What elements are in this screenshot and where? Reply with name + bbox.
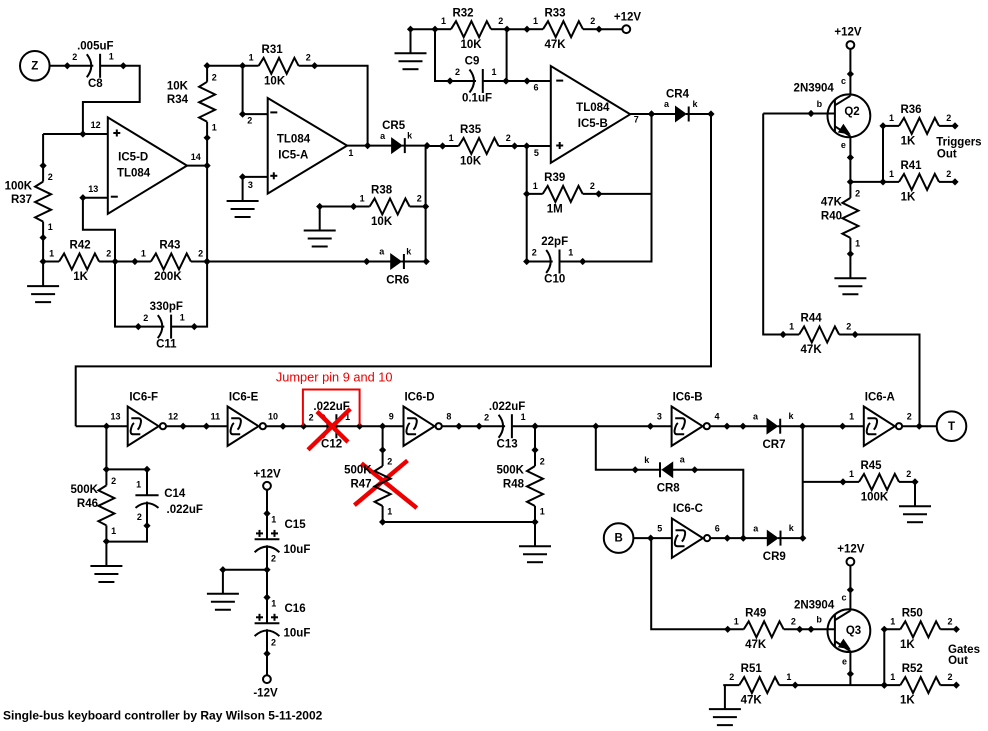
svg-text:2: 2 <box>48 172 53 182</box>
svg-text:b: b <box>817 99 823 109</box>
node C13 junction <box>531 423 538 430</box>
svg-text:1: 1 <box>180 313 185 323</box>
svg-text:+12V: +12V <box>614 12 642 24</box>
wire <box>850 181 883 183</box>
svg-text:2: 2 <box>946 113 951 123</box>
ground stub <box>407 26 414 54</box>
resistor R50 <box>881 607 960 651</box>
svg-text:.005uF: .005uF <box>77 40 113 52</box>
inverter IC6-E <box>203 391 287 446</box>
resistor R46 <box>71 466 117 545</box>
svg-text:B: B <box>614 533 622 545</box>
svg-text:IC5-A: IC5-A <box>278 149 308 161</box>
ground <box>207 594 239 610</box>
svg-text:10uF: 10uF <box>284 544 311 556</box>
svg-text:2: 2 <box>247 116 252 126</box>
svg-text:1: 1 <box>387 507 392 517</box>
svg-text:C15: C15 <box>285 519 307 531</box>
svg-text:1: 1 <box>360 194 365 204</box>
wire <box>596 426 635 470</box>
svg-text:330pF: 330pF <box>150 301 183 313</box>
svg-text:1: 1 <box>521 412 526 422</box>
svg-text:IC6-D: IC6-D <box>404 391 434 403</box>
node R50 junction <box>881 682 888 689</box>
svg-text:+12V: +12V <box>254 469 282 481</box>
wire <box>242 177 244 201</box>
svg-text:1: 1 <box>348 148 353 158</box>
node emitter junction <box>847 178 854 185</box>
svg-text:2: 2 <box>947 672 952 682</box>
svg-text:3: 3 <box>657 412 662 422</box>
power +12V <box>837 544 865 566</box>
svg-text:2: 2 <box>137 512 142 522</box>
annotation X over C12 <box>308 409 350 450</box>
wire <box>206 138 208 262</box>
svg-text:2: 2 <box>212 72 217 82</box>
wire <box>710 425 743 427</box>
svg-text:2: 2 <box>417 194 422 204</box>
ground <box>227 201 259 217</box>
svg-text:2: 2 <box>532 248 537 258</box>
node e <box>842 657 854 678</box>
svg-text:Out: Out <box>948 655 968 667</box>
power +12V <box>834 27 862 49</box>
svg-text:1: 1 <box>734 616 739 626</box>
wire <box>803 425 864 427</box>
resistor R47 <box>344 446 392 525</box>
terminal Z <box>20 51 50 81</box>
resistor R33 <box>523 7 602 51</box>
node out7 <box>648 110 655 117</box>
svg-text:CR4: CR4 <box>666 88 690 100</box>
wire <box>106 526 147 542</box>
annotation jumper text <box>276 370 393 385</box>
svg-text:2: 2 <box>271 637 276 647</box>
svg-text:1: 1 <box>789 322 794 332</box>
svg-text:2: 2 <box>791 616 796 626</box>
svg-text:R36: R36 <box>900 104 921 116</box>
label Gates Out <box>948 644 980 667</box>
wire <box>535 425 672 427</box>
svg-text:R39: R39 <box>544 172 565 184</box>
ground <box>304 231 336 247</box>
svg-text:R44: R44 <box>801 313 823 325</box>
resistor R36 <box>879 104 958 148</box>
wire <box>222 570 224 594</box>
svg-text:1: 1 <box>533 16 538 26</box>
wire <box>383 521 535 523</box>
wire <box>435 29 450 81</box>
wire <box>902 425 937 427</box>
svg-text:1: 1 <box>271 515 276 525</box>
svg-text:1: 1 <box>271 599 276 609</box>
wire <box>83 198 115 262</box>
svg-text:C16: C16 <box>285 603 306 615</box>
inverter IC6-F <box>103 391 187 446</box>
wire <box>42 262 44 287</box>
wire <box>533 83 538 93</box>
svg-text:6: 6 <box>533 83 538 93</box>
wire <box>266 425 304 427</box>
resistor R35 <box>439 124 518 168</box>
svg-text:R49: R49 <box>745 607 766 619</box>
wire <box>187 165 207 167</box>
inverter IC6-C <box>647 503 731 558</box>
svg-text:1K: 1K <box>901 136 916 148</box>
svg-text:2: 2 <box>198 249 203 259</box>
svg-text:Single-bus keyboard controller: Single-bus keyboard controller by Ray Wi… <box>3 709 323 723</box>
svg-text:C8: C8 <box>88 78 103 90</box>
wire <box>243 113 268 115</box>
svg-text:10K: 10K <box>167 80 189 92</box>
capacitor C11 <box>135 301 198 351</box>
wire <box>425 146 427 262</box>
svg-text:500K: 500K <box>497 465 525 477</box>
op-amp IC5-B <box>551 66 639 163</box>
svg-text:R50: R50 <box>902 607 923 619</box>
capacitor C12 <box>300 401 363 451</box>
wire <box>534 148 539 158</box>
svg-text:CR7: CR7 <box>762 439 785 451</box>
op-amp IC5-A <box>247 98 353 194</box>
wire <box>427 145 443 147</box>
svg-text:R38: R38 <box>371 185 393 197</box>
wire <box>194 262 207 327</box>
svg-text:1: 1 <box>111 526 116 536</box>
svg-text:47K: 47K <box>544 39 566 51</box>
svg-text:IC6-F: IC6-F <box>129 391 158 403</box>
svg-text:13: 13 <box>110 412 120 422</box>
wire <box>242 66 244 114</box>
node output 14 <box>204 162 211 169</box>
ground <box>395 53 427 69</box>
wire <box>106 468 147 470</box>
svg-text:R48: R48 <box>503 479 525 491</box>
svg-text:13: 13 <box>88 184 98 194</box>
node gnd tap <box>219 566 226 573</box>
svg-text:1: 1 <box>441 16 446 26</box>
wire <box>347 145 368 147</box>
svg-text:7: 7 <box>634 115 639 125</box>
svg-text:2: 2 <box>72 52 77 62</box>
svg-text:R34: R34 <box>167 94 189 106</box>
svg-text:Z: Z <box>31 60 38 72</box>
svg-text:CR5: CR5 <box>382 120 406 132</box>
wire <box>849 136 851 182</box>
capacitor C15 <box>255 510 311 573</box>
svg-text:1: 1 <box>849 469 854 479</box>
svg-text:.022uF: .022uF <box>167 504 203 516</box>
wire <box>651 538 728 629</box>
wire <box>42 238 44 262</box>
svg-text:4: 4 <box>714 412 719 422</box>
svg-text:5: 5 <box>657 524 662 534</box>
wire <box>803 481 843 483</box>
svg-text:C10: C10 <box>544 274 565 286</box>
ground <box>899 506 931 522</box>
svg-text:1: 1 <box>449 133 454 143</box>
wire <box>599 193 652 195</box>
wire <box>507 28 527 30</box>
svg-text:47K: 47K <box>741 695 763 707</box>
svg-text:R51: R51 <box>741 663 763 675</box>
capacitor C14 <box>135 466 203 530</box>
svg-text:12: 12 <box>91 120 101 130</box>
ground <box>90 566 122 582</box>
svg-text:TL084: TL084 <box>117 168 151 180</box>
wire <box>633 537 672 539</box>
power +12V <box>614 12 642 33</box>
resistor R52 <box>881 663 960 707</box>
annotation jumper box <box>303 390 360 426</box>
svg-text:1: 1 <box>136 479 141 489</box>
svg-text:R37: R37 <box>11 194 32 206</box>
wire <box>710 537 743 539</box>
svg-text:2: 2 <box>106 249 111 259</box>
power +12V <box>254 469 282 490</box>
svg-text:2: 2 <box>590 181 595 191</box>
svg-text:R43: R43 <box>159 240 180 252</box>
wire <box>695 470 744 538</box>
svg-text:CR9: CR9 <box>763 551 786 563</box>
svg-text:2: 2 <box>540 457 545 467</box>
svg-text:C11: C11 <box>156 339 177 351</box>
svg-text:2N3904: 2N3904 <box>794 83 835 95</box>
svg-text:1: 1 <box>533 181 538 191</box>
svg-text:Q2: Q2 <box>844 106 859 118</box>
svg-text:10K: 10K <box>460 39 482 51</box>
node R43 pin2 <box>204 258 211 265</box>
inverter IC6-B <box>647 391 731 446</box>
svg-text:1: 1 <box>889 113 894 123</box>
svg-text:100K: 100K <box>861 492 889 504</box>
svg-text:C14: C14 <box>164 488 186 500</box>
wire <box>83 197 108 199</box>
svg-text:T: T <box>948 421 955 433</box>
ground <box>834 278 866 294</box>
svg-text:2: 2 <box>846 322 851 332</box>
inverter IC6-A <box>839 391 923 446</box>
svg-text:10K: 10K <box>371 216 393 228</box>
svg-text:IC6-E: IC6-E <box>229 391 259 403</box>
svg-text:1K: 1K <box>900 695 915 707</box>
svg-text:CR6: CR6 <box>386 274 409 286</box>
resistor R41 <box>879 160 958 204</box>
svg-text:10K: 10K <box>264 75 286 87</box>
resistor R32 <box>431 7 510 51</box>
resistor R38 <box>350 185 429 229</box>
wire <box>105 426 107 469</box>
diode CR4 <box>648 88 715 121</box>
svg-text:10uF: 10uF <box>284 628 311 640</box>
wire <box>42 134 44 166</box>
resistor R49 <box>724 607 803 651</box>
node R38 gnd <box>316 203 323 210</box>
svg-text:IC6-C: IC6-C <box>673 503 703 515</box>
svg-text:2: 2 <box>306 53 311 63</box>
power -12V <box>253 675 278 699</box>
capacitor C16 <box>255 594 311 657</box>
svg-text:1M: 1M <box>547 204 563 216</box>
svg-text:2: 2 <box>309 412 314 422</box>
svg-text:1: 1 <box>141 249 146 259</box>
svg-text:IC5-D: IC5-D <box>118 152 148 164</box>
svg-text:R40: R40 <box>821 210 842 222</box>
svg-text:-12V: -12V <box>253 688 278 700</box>
svg-text:1: 1 <box>889 169 894 179</box>
svg-text:b: b <box>816 614 822 624</box>
svg-text:C9: C9 <box>465 56 480 68</box>
svg-text:.022uF: .022uF <box>489 401 525 413</box>
svg-text:11: 11 <box>211 412 221 422</box>
svg-text:1: 1 <box>249 53 254 63</box>
resistor R40 <box>821 182 860 258</box>
svg-text:2: 2 <box>484 412 489 422</box>
wire <box>76 425 128 427</box>
resistor R37 <box>5 162 53 241</box>
node c <box>841 70 854 86</box>
svg-text:R52: R52 <box>902 663 923 675</box>
wire <box>583 114 652 262</box>
wire <box>166 425 228 427</box>
svg-text:100K: 100K <box>5 180 33 192</box>
svg-text:e: e <box>842 657 847 667</box>
wire <box>115 262 138 327</box>
svg-text:1K: 1K <box>900 639 915 651</box>
node R47 tap <box>379 423 386 430</box>
svg-text:1: 1 <box>49 249 54 259</box>
wire <box>506 80 551 82</box>
svg-text:Out: Out <box>937 149 957 161</box>
wire <box>411 28 436 30</box>
node pin6 <box>523 77 530 84</box>
svg-text:1: 1 <box>786 672 791 682</box>
wire <box>506 29 508 81</box>
diode CR9 <box>740 523 807 563</box>
svg-text:1: 1 <box>568 247 573 257</box>
svg-text:Triggers: Triggers <box>936 137 981 149</box>
svg-text:TL084: TL084 <box>277 133 311 145</box>
svg-text:2: 2 <box>947 616 952 626</box>
wire <box>526 146 528 262</box>
capacitor C8 <box>64 40 127 90</box>
wire <box>849 254 851 278</box>
svg-text:14: 14 <box>191 152 201 162</box>
node base <box>807 110 814 117</box>
wire <box>599 28 622 30</box>
svg-text:Q3: Q3 <box>846 625 861 637</box>
wire <box>883 629 885 685</box>
wire <box>849 566 851 611</box>
svg-text:2: 2 <box>855 189 860 199</box>
svg-text:+12V: +12V <box>834 27 862 39</box>
wire <box>266 654 268 676</box>
svg-text:R41: R41 <box>900 160 922 172</box>
wire <box>207 261 367 263</box>
wire <box>534 426 536 450</box>
transistor Q2 <box>794 83 871 138</box>
diode CR8 <box>632 455 699 495</box>
wire <box>724 685 726 709</box>
svg-text:1K: 1K <box>73 271 88 283</box>
svg-text:R47: R47 <box>350 479 371 491</box>
label Triggers Out <box>936 137 981 161</box>
resistor R39 <box>523 172 602 216</box>
inverter IC6-D <box>389 391 463 446</box>
op-amp IC5-D <box>88 117 200 213</box>
svg-text:c: c <box>841 593 846 603</box>
wire <box>115 261 135 263</box>
wire <box>320 206 355 208</box>
svg-text:R42: R42 <box>70 240 91 252</box>
resistor R48 <box>497 446 545 525</box>
wire <box>83 66 140 134</box>
svg-text:2N3904: 2N3904 <box>794 600 835 612</box>
wire <box>849 651 851 685</box>
svg-text:1: 1 <box>540 507 545 517</box>
wire <box>223 569 267 571</box>
svg-text:C12: C12 <box>321 438 342 450</box>
svg-text:2: 2 <box>907 412 912 422</box>
svg-text:IC5-B: IC5-B <box>578 118 608 130</box>
svg-text:5: 5 <box>534 148 539 158</box>
svg-text:1: 1 <box>491 67 496 77</box>
svg-text:2: 2 <box>906 469 911 479</box>
resistor R31 <box>239 44 318 88</box>
wire <box>802 426 804 538</box>
ground <box>519 546 551 562</box>
svg-text:47K: 47K <box>745 639 767 651</box>
svg-text:47K: 47K <box>821 197 843 209</box>
resistor R51 <box>723 663 799 707</box>
svg-text:2: 2 <box>143 313 148 323</box>
wire <box>43 133 108 135</box>
svg-text:1K: 1K <box>901 192 916 204</box>
svg-text:1: 1 <box>855 239 860 249</box>
svg-text:C13: C13 <box>497 438 518 450</box>
svg-text:2: 2 <box>946 169 951 179</box>
node c <box>841 586 854 602</box>
wire <box>630 113 651 115</box>
transistor Q3 <box>794 600 870 652</box>
svg-text:2: 2 <box>590 16 595 26</box>
svg-text:c: c <box>841 76 846 86</box>
svg-text:10K: 10K <box>460 156 482 168</box>
diode CR5 <box>364 120 431 153</box>
svg-text:CR8: CR8 <box>657 483 681 495</box>
svg-text:1: 1 <box>109 52 114 62</box>
svg-text:12: 12 <box>168 412 178 422</box>
capacitor C10 <box>523 236 586 286</box>
svg-text:2: 2 <box>455 67 460 77</box>
capacitor C13 <box>476 401 539 451</box>
resistor R43 <box>131 240 210 284</box>
caption <box>3 709 323 723</box>
wire <box>849 49 851 96</box>
capacitor C9 <box>446 56 509 105</box>
wire <box>243 176 268 178</box>
node branch <box>592 423 599 430</box>
wire <box>319 207 321 231</box>
node pin2 <box>239 111 246 118</box>
svg-text:R31: R31 <box>262 44 284 56</box>
svg-text:1: 1 <box>212 122 217 132</box>
wire <box>795 684 884 686</box>
svg-text:IC6-A: IC6-A <box>865 391 895 403</box>
wire <box>266 570 268 598</box>
wire <box>315 66 368 146</box>
svg-text:1: 1 <box>890 616 895 626</box>
